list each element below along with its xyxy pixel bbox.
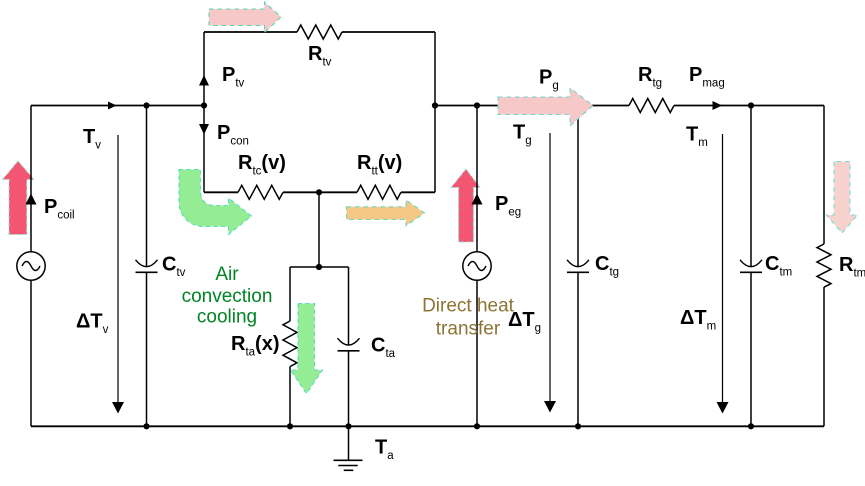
arrowhead P_con down (199, 124, 209, 135)
measurement line dT_g (549, 133, 551, 401)
node dot ground junction (345, 423, 351, 429)
svg-text:Rtc(v): Rtc(v) (238, 152, 286, 178)
wire top-left rail (31, 105, 204, 107)
ground symbol (334, 460, 363, 470)
svg-text:transfer: transfer (436, 319, 501, 340)
svg-text:Rtt(v): Rtt(v) (357, 152, 402, 178)
measurement line dT_m (722, 134, 724, 402)
node dot C_tg bottom (575, 423, 581, 429)
arrowhead P_coil up (26, 194, 37, 205)
capacitor C_tm curved plate (740, 260, 762, 267)
arrowhead P_eg up (472, 194, 483, 205)
node dot box bottom junction (316, 189, 322, 195)
svg-text:Rta(x): Rta(x) (231, 333, 280, 359)
svg-text:cooling: cooling (197, 307, 257, 328)
wire top-middle rail (435, 105, 629, 107)
node dot P_eg bottom (474, 423, 480, 429)
wire box top right segment (342, 31, 435, 33)
flow arrow P_tv (pink, dashed border) (209, 2, 281, 33)
arrowhead dT_m down (717, 402, 729, 414)
capacitor C_tg straight plate (567, 271, 589, 273)
source U1 P_coil circle (17, 252, 45, 280)
arrowhead on top-left rail (108, 102, 117, 110)
node dot box right (432, 102, 438, 108)
source U2 sine wave (468, 262, 486, 271)
wire C_tm branch upper (750, 106, 752, 267)
wire box right vertical (434, 32, 436, 192)
wire R_tm branch lower (823, 287, 825, 426)
wire ground stem (348, 426, 350, 460)
wire C_ta branch upper (348, 267, 350, 345)
svg-text:convection: convection (182, 286, 273, 307)
flow arrow P_eg (red up arrow) (451, 169, 480, 242)
svg-text:Air: Air (215, 264, 239, 285)
wire box bottom right segment (401, 191, 435, 193)
wire C_tg branch upper (577, 106, 579, 267)
flow arrow down-right of P_mag (pink, dashed border) (827, 162, 858, 234)
flow arrow P_coil (red up arrow) (3, 161, 35, 235)
capacitor C_tm straight plate (740, 271, 762, 273)
wire left vertical lower (30, 281, 32, 427)
wire R_ta/C_ta block top (290, 266, 349, 268)
node dot C_tm bottom (748, 423, 754, 429)
resistor R_tg (629, 99, 674, 113)
wire box bottom middle segment (283, 191, 357, 193)
arrowhead dT_g down (544, 401, 556, 413)
arrowhead dT_v down (112, 402, 124, 414)
wire left vertical upper (30, 106, 32, 253)
svg-text:Direct heat: Direct heat (422, 296, 515, 317)
capacitor C_ta straight plate (338, 350, 360, 352)
wire C_tg branch lower (577, 272, 579, 426)
node dot box left (201, 102, 207, 108)
resistor R_ta(x) (283, 321, 297, 367)
wire box bottom left segment (204, 191, 238, 193)
node dot R_ta bottom (287, 423, 293, 429)
wire box left vertical (203, 32, 205, 192)
resistor R_tv (297, 25, 342, 39)
node dot C_tv top (143, 102, 149, 108)
wire C_tv branch lower (146, 272, 148, 426)
node dot C_tm top (748, 102, 754, 108)
node dot C_tv bottom (143, 423, 149, 429)
measurement line dT_v (117, 135, 119, 402)
arrowhead P_tv up (199, 75, 209, 86)
capacitor C_tg curved plate (567, 260, 589, 267)
flow arrow heat transfer (orange right arrow) (347, 200, 425, 226)
resistor R_tm (817, 244, 831, 287)
wire P_eg branch lower (476, 281, 478, 427)
node dot parallel block top (316, 264, 322, 270)
resistor R_tc(v) (238, 185, 283, 199)
arrowhead P_mag right (713, 101, 723, 110)
wire bottom rail (31, 425, 824, 427)
wire C_tm branch lower (750, 272, 752, 426)
source U1 sine wave (22, 262, 40, 271)
wire P_eg branch upper (476, 106, 478, 253)
flow arrow P_g (pink, dashed border) (498, 88, 593, 126)
node dot P_eg top (474, 102, 480, 108)
capacitor C_tv curved plate (136, 260, 158, 267)
wire mid vertical to R_ta/C_ta block (318, 192, 320, 267)
flow arrow heat to ambient (green down arrow) (291, 304, 323, 394)
capacitor C_tv straight plate (136, 271, 158, 273)
wire top-right rail (674, 105, 824, 107)
resistor R_tt(v) (357, 185, 401, 199)
flow arrow air convection (green curved arrow) (179, 170, 252, 235)
capacitor C_ta curved plate (338, 338, 360, 345)
wire C_ta branch lower (348, 351, 350, 427)
wire C_tv branch upper (146, 106, 148, 267)
wire R_tm branch upper (823, 106, 825, 245)
wire R_ta branch upper (289, 267, 291, 321)
source U2 P_eg circle (463, 252, 491, 280)
wire box top left segment (204, 31, 297, 33)
wire R_ta branch lower (289, 367, 291, 427)
